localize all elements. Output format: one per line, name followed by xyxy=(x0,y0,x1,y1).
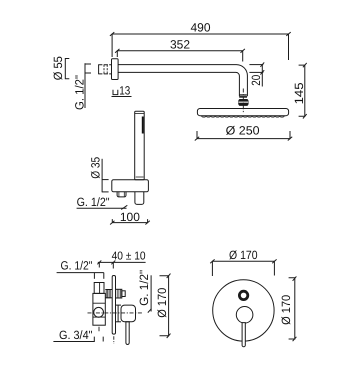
label G 3/4 leader xyxy=(53,337,103,342)
svg-text:G. 1/2": G. 1/2" xyxy=(77,195,110,209)
holder outlet nub xyxy=(117,192,126,197)
dimension D35 leader xyxy=(102,159,109,193)
svg-text:13: 13 xyxy=(119,84,130,98)
dimension D170 side xyxy=(160,274,171,338)
svg-text:145: 145 xyxy=(292,82,306,104)
svg-text:Ø 250: Ø 250 xyxy=(226,123,260,137)
mixer handle body xyxy=(121,305,136,322)
centerline of vertical tube xyxy=(242,89,244,114)
dimension 100 xyxy=(110,219,150,224)
dimension D250 xyxy=(195,131,292,141)
svg-text:20: 20 xyxy=(249,74,263,85)
mixer hidden cap in wall xyxy=(94,273,104,283)
dimension 352 xyxy=(115,49,245,62)
label 13 underline xyxy=(112,96,132,98)
diverter button ring xyxy=(239,291,247,299)
label square 13 symbol xyxy=(113,90,118,95)
label G 1/2 holder leader xyxy=(77,205,128,209)
hand shower spray slot xyxy=(142,117,144,134)
label G 1/2 mixer top leader xyxy=(57,272,104,274)
dimension 20 arm diameter xyxy=(249,62,264,86)
label G 1/2 top leader xyxy=(85,63,91,108)
mixer body upper xyxy=(94,283,104,294)
svg-text:100: 100 xyxy=(120,210,140,224)
shower head xyxy=(197,109,288,118)
arm connector nut xyxy=(238,94,248,106)
mixer handle neck xyxy=(116,305,122,322)
mixer body inlet circle xyxy=(94,307,104,317)
dimension 40 +- 10 xyxy=(97,261,145,269)
body centerline below xyxy=(98,327,100,332)
shower arm tube xyxy=(118,65,247,97)
dimension D170 front right xyxy=(289,276,297,341)
label G 1/2 mixer right leader xyxy=(148,275,152,312)
dimension D55 bracket xyxy=(65,59,69,79)
mixer body main xyxy=(93,293,105,325)
mixer wall plate xyxy=(112,276,115,335)
handle hub front xyxy=(236,307,253,324)
svg-text:490: 490 xyxy=(190,21,210,35)
mixer front plate circle xyxy=(213,280,274,341)
lever front xyxy=(242,323,245,347)
mixer outlet passage xyxy=(105,290,112,298)
svg-text:Ø 170: Ø 170 xyxy=(279,295,293,325)
svg-text:40 ± 10: 40 ± 10 xyxy=(112,251,146,263)
svg-text:Ø 170: Ø 170 xyxy=(229,248,258,262)
wall nipple G1/2 xyxy=(98,65,111,74)
mixer centerline xyxy=(88,312,144,314)
svg-text:Ø 170: Ø 170 xyxy=(155,287,169,317)
svg-text:G. 1/2": G. 1/2" xyxy=(72,75,86,110)
mixer body step lines xyxy=(93,303,105,317)
wall flange xyxy=(112,59,119,80)
dimension 490 xyxy=(110,32,291,60)
mixer lever side xyxy=(126,322,129,345)
hand shower handle xyxy=(135,111,145,180)
mixer shower outlet fitting G1/2 xyxy=(116,289,126,298)
svg-text:Ø 55: Ø 55 xyxy=(51,56,65,80)
svg-text:G. 1/2": G. 1/2" xyxy=(137,270,151,306)
dimension D170 front top xyxy=(210,259,276,276)
svg-text:Ø 35: Ø 35 xyxy=(89,157,103,179)
hand shower lower grip xyxy=(135,192,144,205)
svg-text:352: 352 xyxy=(170,38,190,52)
plate centerline below xyxy=(113,336,115,344)
hand shower holder plate xyxy=(112,180,149,192)
dimension 145 xyxy=(299,63,307,119)
svg-text:G. 3/4": G. 3/4" xyxy=(59,328,93,342)
svg-text:G. 1/2": G. 1/2" xyxy=(61,259,93,273)
